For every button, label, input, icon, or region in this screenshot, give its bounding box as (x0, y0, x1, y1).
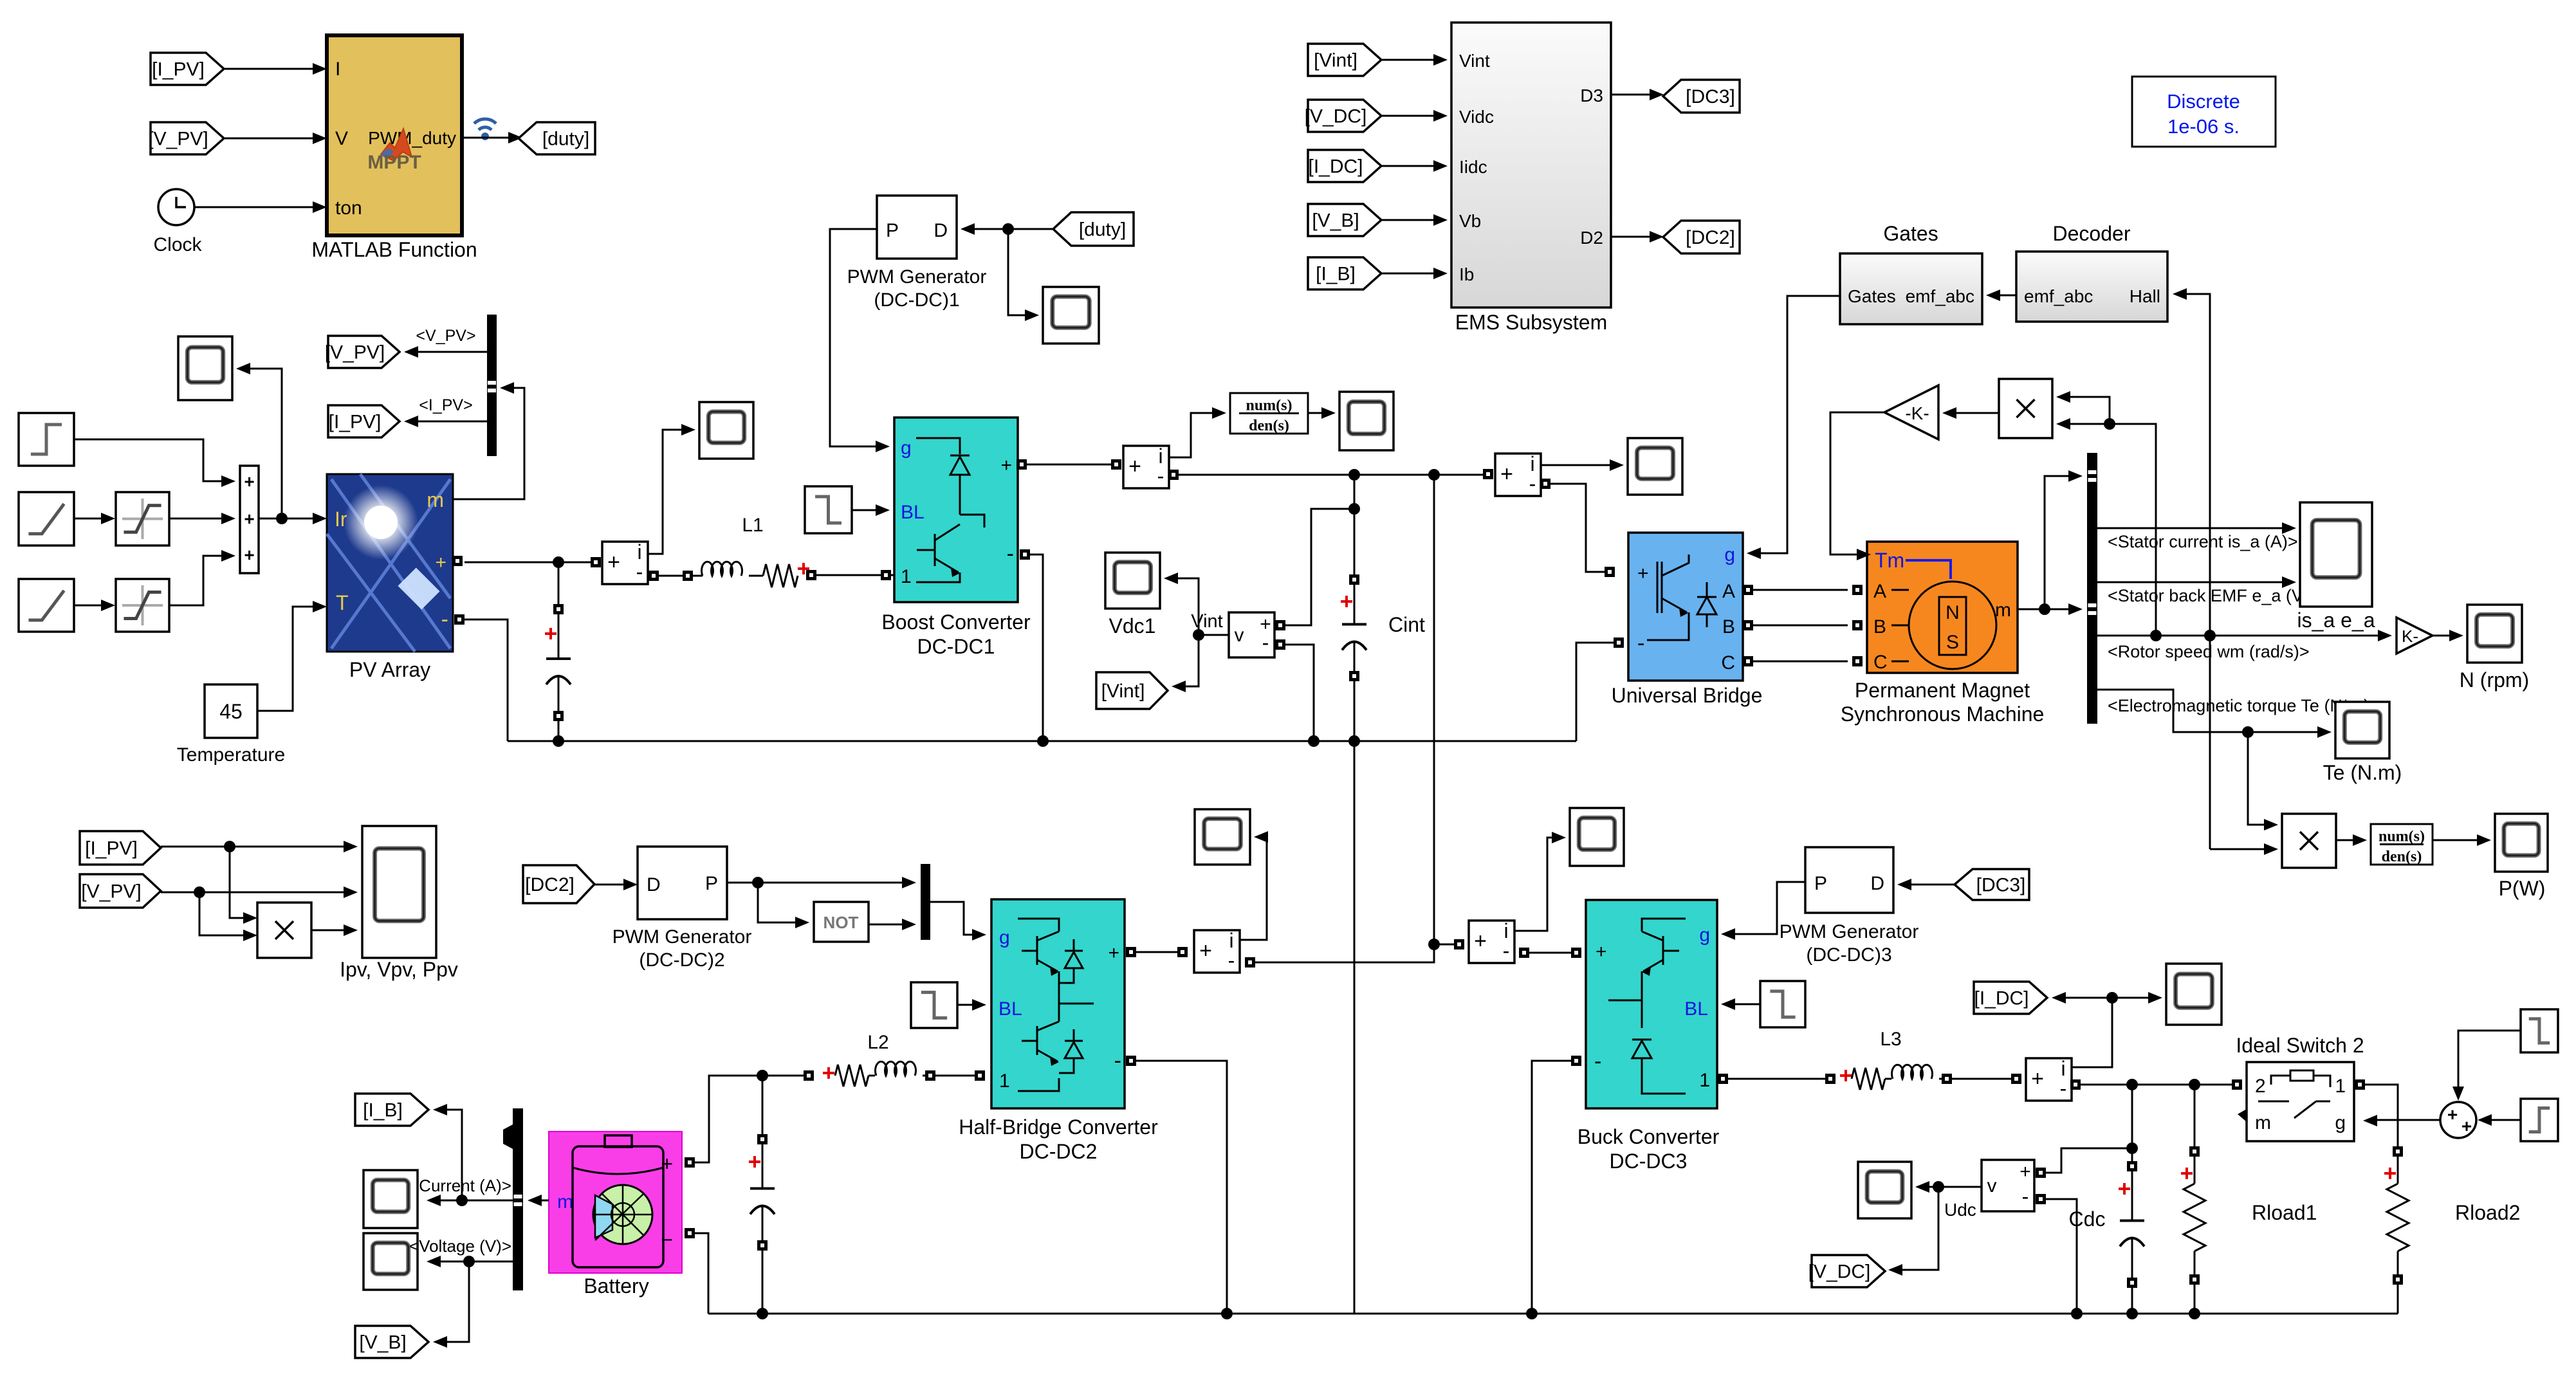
svg-text:+: + (1108, 942, 1119, 964)
wire pwm2 P to mux bar3 (727, 877, 916, 888)
goto tag V_DC (1808, 1255, 1885, 1287)
svg-text:<V_PV>: <V_PV> (416, 327, 475, 345)
wire M2 to TF2 (2336, 834, 2367, 846)
wire +node down to buck feed (1428, 475, 1440, 962)
svg-text:N (rpm): N (rpm) (2460, 668, 2529, 692)
svg-text:[V_PV]: [V_PV] (81, 881, 141, 903)
wire PWM_duty to duty goto (462, 132, 522, 143)
wire CS5 minus to buck + (1519, 948, 1581, 958)
wire node to scope17 (2112, 992, 2162, 1004)
wire V_PV branch to multiply M3 (199, 892, 257, 941)
capacitor C_PV branch (545, 562, 571, 747)
goto tag I_B battery (355, 1094, 428, 1126)
svg-text:-: - (1529, 472, 1536, 495)
svg-text:C: C (1721, 652, 1735, 674)
svg-text:-: - (2060, 1077, 2067, 1100)
wire CS3 i to scope5 (1541, 459, 1624, 471)
wire DC3 to pwm3 D (1897, 879, 1955, 890)
saturation block 1 (116, 492, 169, 546)
PWM Generator DC-DC3 block (1805, 847, 1893, 913)
PV Array block (327, 474, 453, 652)
svg-text:[Vint]: [Vint] (1101, 681, 1145, 702)
wire stator current to scope is_a (2097, 522, 2298, 551)
wire ramp1 to saturation1 (74, 513, 115, 524)
svg-text:[I_DC]: [I_DC] (1974, 988, 2029, 1009)
svg-text:num(s): num(s) (2378, 828, 2425, 845)
svg-text:Clock: Clock (153, 234, 202, 255)
svg-text:PWM_duty: PWM_duty (368, 128, 456, 148)
svg-text:Rload1: Rload1 (2252, 1201, 2317, 1224)
PV Array label (349, 658, 430, 681)
from tag V_DC EMS (1305, 100, 1381, 132)
half-bridge plus port to CS4 (1126, 947, 1188, 957)
svg-text:C: C (1873, 652, 1888, 673)
svg-text:m: m (557, 1191, 573, 1213)
wire bar1 to V_PV tag (404, 327, 487, 358)
svg-text:2: 2 (2255, 1076, 2266, 1097)
wire bar1 to I_PV tag (404, 396, 487, 427)
wire gates output to bridge g (1752, 296, 1840, 553)
svg-text:P: P (705, 873, 718, 894)
from tag V_B EMS (1308, 204, 1381, 236)
from tag V_PV (MPPT input) (148, 122, 224, 154)
gain -K- triangle (1884, 385, 1938, 439)
svg-text:g: g (1699, 924, 1710, 946)
svg-text:-: - (1007, 542, 1014, 566)
scope1 irradiance (178, 336, 232, 400)
svg-text:Vidc: Vidc (1459, 107, 1494, 127)
svg-text:+: + (244, 472, 254, 491)
wire M3 to scope12 input3 (311, 924, 358, 936)
svg-text:MATLAB Function: MATLAB Function (311, 238, 477, 261)
svg-text:[DC2]: [DC2] (1686, 227, 1735, 248)
constant 45 Temperature (177, 684, 285, 766)
svg-text:+: + (2447, 1105, 2458, 1124)
svg-text:DC-DC2: DC-DC2 (1020, 1140, 1098, 1163)
svg-text:45: 45 (219, 700, 243, 723)
goto tag Vint (1096, 672, 1168, 709)
wire boost- to rail1 (1030, 555, 1049, 747)
svg-text:Cint: Cint (1388, 613, 1425, 636)
svg-text:[DC2]: [DC2] (525, 874, 575, 895)
wire stepBL2 to half-bridge BL (957, 999, 986, 1011)
scope5 (1628, 438, 1682, 495)
current sensor CS2 (1123, 445, 1169, 488)
wire I_PV to MATLAB fn I (224, 63, 327, 75)
wire duty junction to scope3 (1008, 229, 1039, 321)
svg-text:Ideal Switch 2: Ideal Switch 2 (2236, 1034, 2364, 1057)
svg-text:DC-DC1: DC-DC1 (917, 635, 995, 658)
svg-text:+: + (1199, 939, 1212, 963)
wire sum to PV Ir (259, 513, 327, 524)
goto tag V_B battery (355, 1326, 428, 1358)
multiply block power (2282, 814, 2336, 868)
wire pwm2 P to NOT (758, 883, 809, 928)
wire sum to switch g (2372, 1119, 2440, 1121)
PMSM label (1841, 679, 2045, 726)
wire ramp2 to saturation2 (74, 600, 115, 611)
Boost Converter DC-DC1 block (894, 417, 1018, 602)
svg-text:v: v (1235, 625, 1244, 646)
svg-text:D2: D2 (1580, 228, 1603, 248)
svg-text:g: g (1724, 544, 1735, 565)
PWM Generator DC-DC2 block (638, 847, 727, 919)
wire boost+ to CS2 (1027, 459, 1121, 470)
scope17 I_DC (2166, 964, 2222, 1025)
svg-text:T: T (336, 591, 349, 614)
scope N rpm (2460, 605, 2529, 692)
wire I_PV to scope12 input1 (161, 841, 358, 852)
svg-text:(DC-DC)2: (DC-DC)2 (639, 949, 724, 971)
svg-text:Synchronous Machine: Synchronous Machine (1841, 702, 2045, 726)
wire bridge B to PMSM B (1753, 620, 1863, 630)
svg-text:[V_PV]: [V_PV] (148, 129, 208, 150)
wire battery m to bar4 (528, 1195, 549, 1206)
svg-text:Udc: Udc (1944, 1200, 1976, 1220)
svg-text:-: - (1228, 949, 1235, 972)
svg-text:1: 1 (1699, 1070, 1710, 1091)
MATLAB Function MPPT block (327, 35, 462, 235)
svg-text:(DC-DC)1: (DC-DC)1 (874, 289, 959, 311)
wire K- to scope N rpm (2433, 630, 2463, 641)
svg-text:-: - (1157, 464, 1164, 488)
resistor R of L1 branch (749, 563, 809, 587)
svg-text:I: I (335, 59, 340, 80)
svg-text:PWM Generator: PWM Generator (847, 266, 987, 288)
half-bridge g input arrow already; BL step block (911, 982, 957, 1028)
svg-text:D: D (647, 874, 661, 895)
from tag V_PV bottom (80, 874, 161, 908)
VS1 plus port wire to Cint top (1275, 509, 1354, 630)
Boost Converter label (881, 610, 1031, 658)
step block boost BL (805, 486, 852, 533)
wire CS6 i up to I_DC node (2071, 992, 2118, 1067)
svg-text:Buck Converter: Buck Converter (1578, 1125, 1720, 1148)
svg-text:-: - (441, 607, 448, 632)
svg-text:v: v (1987, 1175, 1997, 1197)
Ideal Switch 2 label (2236, 1034, 2364, 1057)
from tag I_B EMS (1308, 257, 1381, 289)
svg-text:(DC-DC)3: (DC-DC)3 (1806, 944, 1891, 966)
MATLAB Function label (311, 238, 477, 261)
svg-text:Ipv, Vpv, Ppv: Ipv, Vpv, Ppv (340, 958, 458, 981)
svg-text:is_a e_a: is_a e_a (2297, 609, 2375, 632)
wire PV- to ground rail1 (465, 619, 508, 741)
svg-text:den(s): den(s) (2382, 848, 2422, 865)
wire V_PV to MATLAB fn V (224, 133, 327, 144)
wire bridge- to rail1 (1576, 637, 1624, 741)
bus selector bar4 battery m (503, 1108, 523, 1290)
scope3 duty (1043, 287, 1099, 344)
wire CS5 i to scope14 (1514, 832, 1566, 931)
svg-text:+: + (1500, 462, 1513, 486)
gain K- triangle (2397, 618, 2433, 654)
PMSM Tm input arrow (1857, 549, 1871, 560)
svg-text:[duty]: [duty] (542, 129, 589, 150)
transfer fcn TF2 (2371, 824, 2433, 865)
svg-text:<Voltage (V)>: <Voltage (V)> (409, 1236, 511, 1256)
svg-text:+: + (1596, 941, 1607, 962)
svg-text:[Vint]: [Vint] (1314, 50, 1357, 71)
Gates label (1883, 222, 1938, 245)
svg-text:+: + (244, 545, 254, 565)
wire TF2 to scope P(W) (2433, 834, 2491, 846)
wire TF1 to scope4 (1308, 407, 1336, 419)
svg-text:[DC3]: [DC3] (1686, 86, 1735, 107)
svg-text:1: 1 (901, 566, 912, 587)
scope18 Udc (1858, 1162, 1911, 1218)
half-bridge minus port to rail2 (1126, 1056, 1233, 1319)
from tag DC2 pwm2 (523, 865, 594, 903)
svg-text:Half-Bridge Converter: Half-Bridge Converter (959, 1115, 1158, 1139)
wire hall input from rotor speed (2173, 288, 2216, 849)
svg-text:[I_PV]: [I_PV] (152, 59, 205, 80)
add block (sum of irradiance) (240, 466, 259, 573)
svg-text:S: S (1946, 632, 1959, 653)
wire node to I_DC tag (2052, 992, 2112, 1004)
ramp block 1 (19, 492, 74, 546)
svg-text:num(s): num(s) (1246, 397, 1292, 414)
Rload1 branch (2181, 1085, 2317, 1319)
saturation block 2 (116, 579, 169, 632)
step block buck BL (1760, 981, 1805, 1027)
svg-text:Tm: Tm (1875, 549, 1904, 572)
inductor L2 with resistor (804, 1032, 985, 1087)
wire VS2 v to Udc scope and V_DC tag (1888, 1181, 1982, 1276)
wire Cint link rail1 to rail2 (1354, 741, 1356, 1314)
goto tag V_PV from bus (325, 336, 400, 368)
goto tag I_PV from bus (328, 405, 400, 437)
buck 1 port and inductor L3 (1718, 1029, 2021, 1090)
wire duty-from to pwm1 D (961, 223, 1053, 235)
multiply inputs wiring (2056, 391, 2156, 636)
svg-text:Permanent Magnet: Permanent Magnet (1855, 679, 2030, 702)
svg-text:1: 1 (999, 1070, 1010, 1092)
Rload2 branch (2384, 1146, 2520, 1314)
svg-text:emf_abc: emf_abc (2024, 286, 2093, 306)
wire VS1 v to Vdc1 scope and Vint goto (1164, 573, 1229, 692)
svg-text:-: - (2022, 1185, 2029, 1208)
step block switch top (2521, 1009, 2558, 1052)
svg-text:ton: ton (335, 197, 362, 219)
svg-text:Ir: Ir (335, 508, 347, 531)
svg-text:<Stator back EMF e_a (V)>: <Stator back EMF e_a (V)> (2108, 586, 2319, 605)
svg-text:[V_B]: [V_B] (1312, 210, 1359, 232)
wire stator back EMF to scope is_a (2097, 576, 2319, 605)
from tag DC3 pwm3 (1955, 869, 2029, 900)
multiply block Ppv (257, 903, 311, 958)
svg-text:K-: K- (2402, 627, 2418, 646)
buck minus port to rail2 (1526, 1056, 1581, 1319)
svg-text:Universal Bridge: Universal Bridge (1612, 684, 1763, 707)
svg-text:D3: D3 (1580, 86, 1603, 105)
wire PV m to bar1 (453, 382, 524, 499)
battery minus port to rail2 (685, 1228, 708, 1314)
Universal Bridge label (1612, 684, 1763, 707)
wire junction to scope1 (236, 363, 282, 518)
NOT block (814, 902, 869, 942)
wireless logging badge (474, 119, 496, 140)
wire V_DC to EMS (1381, 110, 1448, 122)
PWM Generator 2 label (612, 926, 752, 971)
svg-text:A: A (1873, 581, 1886, 602)
EMS Subsystem block (1451, 23, 1611, 307)
svg-text:-: - (1262, 631, 1269, 654)
wire step to sum right (2478, 1114, 2521, 1126)
svg-text:B: B (1722, 616, 1735, 637)
ideal switch g arrow (2363, 1115, 2377, 1126)
goto tag I_DC (1974, 982, 2047, 1014)
wire CS6 minus to ideal switch (2070, 1079, 2242, 1090)
svg-text:+: + (244, 509, 254, 529)
svg-text:Cdc: Cdc (2069, 1207, 2106, 1231)
svg-text:P(W): P(W) (2499, 877, 2546, 900)
capacitor C_batt branch (749, 1076, 775, 1319)
svg-text:[I_B]: [I_B] (363, 1100, 403, 1121)
PWM Generator 3 label (1780, 921, 1919, 966)
EMS Subsystem label (1455, 311, 1608, 334)
svg-text:+: + (2461, 1116, 2472, 1136)
svg-text:[I_B]: [I_B] (1316, 264, 1356, 285)
wire I_DC to EMS (1381, 160, 1448, 172)
svg-text:BL: BL (901, 502, 925, 523)
svg-text:-K-: -K- (1905, 403, 1929, 423)
bus selector bar1 (PV m) (487, 315, 497, 456)
bridge output ports ABC (1743, 585, 1753, 666)
svg-text:Gates: Gates (1883, 222, 1938, 245)
svg-text:Rload2: Rload2 (2455, 1201, 2520, 1224)
svg-text:NOT: NOT (823, 913, 859, 932)
Decoder block (2016, 252, 2167, 322)
wire switch 1 to Rload2 (2355, 1079, 2398, 1147)
svg-text:Te (N.m): Te (N.m) (2323, 761, 2402, 784)
svg-text:m: m (2255, 1112, 2271, 1133)
svg-text:1e-06 s.: 1e-06 s. (2167, 115, 2240, 138)
capacitor Cint branch (1341, 475, 1425, 747)
svg-text:D: D (934, 220, 948, 241)
svg-text:Decoder: Decoder (2053, 222, 2131, 245)
svg-text:N: N (1946, 602, 1960, 623)
current sensor CS3 (1483, 452, 1541, 496)
svg-text:MPPT: MPPT (367, 152, 421, 173)
svg-text:BL: BL (1684, 998, 1708, 1020)
svg-text:+: + (661, 1152, 673, 1175)
svg-text:1: 1 (2335, 1076, 2346, 1097)
current sensor CS6 (2026, 1057, 2072, 1101)
boost minus port square (1020, 549, 1030, 560)
Battery label (584, 1274, 649, 1298)
Buck Converter label (1578, 1125, 1720, 1173)
wire bridge C to PMSM C (1753, 656, 1863, 666)
svg-text:-: - (1503, 939, 1510, 962)
wire step to sum top (2452, 1031, 2521, 1101)
Discrete solver block (2132, 77, 2276, 147)
step block switch bottom (2521, 1099, 2558, 1141)
svg-text:<Current (A)>: <Current (A)> (409, 1176, 511, 1195)
sum junction circle (2440, 1102, 2476, 1138)
current sensor CS4 (1194, 929, 1240, 973)
from tag I_PV bottom (80, 831, 161, 865)
svg-text:[I_PV]: [I_PV] (85, 838, 138, 859)
wire sat2 to sum (169, 550, 235, 605)
PWM Generator 1 label (847, 266, 987, 311)
svg-text:[V_PV]: [V_PV] (325, 342, 385, 363)
wire EMS D3 to DC3 goto (1611, 89, 1664, 100)
wire I_B to EMS (1381, 268, 1448, 279)
from tag Vint EMS (1308, 44, 1381, 76)
wire decoder to gates (1986, 289, 2016, 301)
svg-text:g: g (901, 437, 912, 459)
wire EMS D2 to DC2 goto (1611, 231, 1664, 243)
wire torque to multiply M2 (2248, 732, 2278, 830)
scope battery current (363, 1170, 418, 1228)
Battery block (549, 1132, 682, 1273)
ground rail1 (508, 740, 1576, 742)
wire CS3 minus to bridge + (1540, 479, 1615, 577)
wire PMSM m to bar2 (2018, 470, 2083, 615)
wire CS1 i to scope2 (648, 424, 695, 554)
svg-text:+: + (2031, 1067, 2044, 1091)
svg-text:+: + (435, 552, 446, 573)
wire I_PV branch to multiply M3 (230, 847, 257, 924)
Buck Converter DC-DC3 block (1586, 900, 1717, 1108)
svg-text:−: − (661, 1228, 673, 1251)
from tag duty to pwm1 (1053, 212, 1134, 246)
svg-text:+: + (2019, 1161, 2031, 1182)
VS2 plus wire to Cdc top (2036, 1148, 2132, 1178)
VS2 minus wire to rail2 (2036, 1194, 2083, 1319)
svg-text:DC-DC3: DC-DC3 (1610, 1150, 1688, 1173)
from tag I_DC EMS (1308, 150, 1381, 182)
svg-text:[V_B]: [V_B] (359, 1332, 406, 1353)
svg-text:+: + (1474, 929, 1487, 953)
wire stepBL to boost BL (852, 504, 890, 516)
svg-text:Vint: Vint (1459, 51, 1490, 71)
svg-text:PV Array: PV Array (349, 658, 430, 681)
wire sat1 to sum (169, 513, 235, 524)
wire NOT to mux bar3 (869, 919, 916, 930)
CS4 minus wire to buck node (1245, 944, 1434, 968)
wire bridge A to PMSM A (1753, 585, 1863, 595)
svg-text:[DC3]: [DC3] (1976, 875, 2026, 896)
capacitor Cdc branch (2069, 1085, 2144, 1319)
L1 right port and wire to boost 1 (806, 570, 894, 580)
boost plus port square (1017, 459, 1027, 470)
svg-text:Hall: Hall (2130, 286, 2160, 306)
svg-text:<Stator current is_a (A)>: <Stator current is_a (A)> (2108, 532, 2298, 551)
Ideal Switch 2 block (2238, 1062, 2354, 1141)
bridge g input arrow (1747, 547, 1761, 559)
Half-Bridge Converter DC-DC2 block (991, 899, 1125, 1108)
wire DC2 to pwm2 D (594, 879, 638, 890)
wire bar3 to half-bridge g (930, 902, 986, 940)
wire CS4 i to scope13 (1240, 831, 1268, 940)
svg-text:[I_PV]: [I_PV] (329, 412, 382, 433)
wire bar4 current out to scope and I_B (409, 1104, 513, 1206)
svg-text:g: g (999, 927, 1010, 948)
svg-text:Vint: Vint (1191, 611, 1222, 632)
battery plus port to L2 node (685, 1070, 804, 1168)
svg-text:m: m (427, 488, 444, 511)
goto tag DC2 (1663, 221, 1740, 253)
CS1 minus port to L1 (649, 571, 703, 581)
wire CS2 i to TF1 (1169, 407, 1226, 457)
svg-text:P: P (1814, 873, 1827, 894)
svg-text:Ib: Ib (1459, 264, 1474, 284)
svg-text:+: + (1000, 455, 1012, 476)
voltage sensor VS2 Udc (1982, 1160, 2034, 1211)
svg-text:Vb: Vb (1459, 211, 1481, 231)
